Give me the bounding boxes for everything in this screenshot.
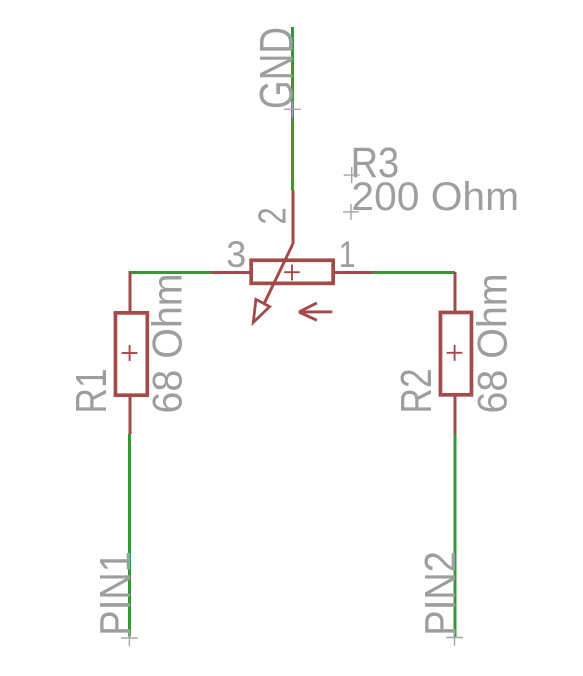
potentiometer R3: [210, 191, 374, 323]
svg-text:68 Ohm: 68 Ohm: [143, 273, 190, 413]
value 200 Ohm: [351, 174, 519, 220]
resistor R2: [440, 272, 471, 434]
svg-text:200 Ohm: 200 Ohm: [351, 174, 519, 220]
wire pot pin3 to R1: [128, 271, 210, 274]
node R3 value origin cross: [343, 204, 359, 220]
svg-text:3: 3: [226, 234, 246, 276]
svg-text:1: 1: [339, 234, 356, 276]
svg-text:68 Ohm: 68 Ohm: [468, 273, 515, 413]
node GND origin cross: [284, 101, 301, 118]
svg-text:R2: R2: [392, 368, 441, 413]
svg-text:PIN1: PIN1: [91, 551, 140, 636]
node PIN2 end cross: [446, 629, 462, 645]
label PIN2: [416, 551, 465, 636]
wire GND net vertical: [291, 27, 294, 191]
pin 3 label: [226, 234, 246, 276]
value 68 Ohm right: [468, 273, 515, 413]
wire R2 to PIN2: [454, 434, 457, 637]
wiper adjust arrow: [299, 303, 332, 320]
svg-text:GND: GND: [250, 27, 302, 109]
wire pot pin1 to R2: [374, 271, 456, 274]
wire R1 to PIN1: [128, 434, 131, 637]
node R3 name origin cross: [344, 167, 360, 183]
pin 2 label: [251, 207, 294, 224]
label GND: [250, 27, 302, 109]
label PIN1: [91, 551, 140, 636]
label R3: [351, 139, 400, 186]
value 68 Ohm left: [143, 273, 190, 413]
node PIN1 end cross: [121, 630, 137, 646]
svg-text:2: 2: [251, 207, 294, 224]
pin 1 label: [339, 234, 356, 276]
svg-text:R1: R1: [67, 368, 116, 413]
resistor R1: [115, 272, 147, 434]
label R2: [392, 368, 441, 413]
label R1: [67, 368, 116, 413]
svg-text:PIN2: PIN2: [416, 551, 465, 636]
